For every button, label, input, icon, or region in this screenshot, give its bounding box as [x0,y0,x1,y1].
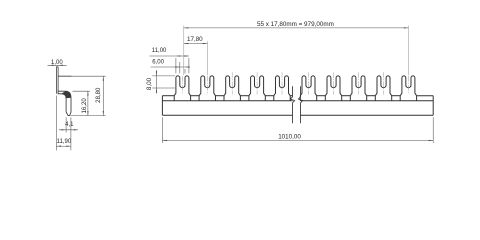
svg-text:16,20: 16,20 [81,98,88,114]
svg-text:1010,00: 1010,00 [278,134,301,141]
svg-text:4,1: 4,1 [65,122,74,128]
svg-text:8,00: 8,00 [146,77,153,90]
svg-text:17,80: 17,80 [187,36,203,43]
svg-text:11,00: 11,00 [152,48,167,54]
svg-text:1,00: 1,00 [51,60,63,66]
svg-text:55 x 17,80mm = 979,00mm: 55 x 17,80mm = 979,00mm [257,21,334,28]
svg-text:11,90: 11,90 [57,139,72,145]
svg-text:28,80: 28,80 [95,87,102,103]
svg-text:6,00: 6,00 [152,60,164,66]
